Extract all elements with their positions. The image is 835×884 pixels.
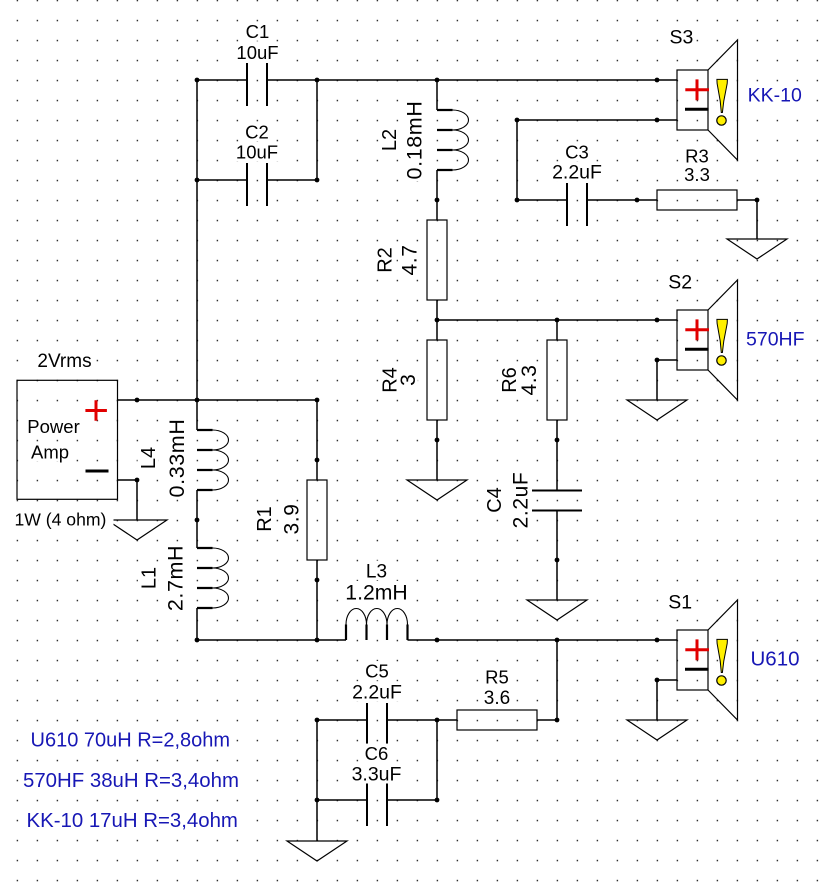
wire junction node (437,320) [435, 318, 440, 323]
svg-text:10uF: 10uF [236, 142, 278, 163]
wire junction node (657,640) [655, 638, 660, 643]
wire S3 minus horizontal [517, 119, 677, 121]
wire junction node (657,680) [655, 678, 660, 683]
ground (R4) [407, 480, 467, 500]
wire S1 minus to ground [656, 680, 658, 720]
wire bottom rail L3 to S1 [408, 639, 678, 641]
wire junction node (317,460) [315, 458, 320, 463]
svg-text:2.7mH: 2.7mH [164, 545, 188, 611]
label R3 value [681, 146, 713, 186]
label L3 value [344, 561, 410, 605]
svg-text:2.2uF: 2.2uF [509, 472, 532, 529]
wire junction node (657,360) [655, 358, 660, 363]
label R2 value [374, 243, 422, 278]
capacitor C1 [247, 63, 267, 106]
label L4 value [138, 417, 189, 499]
svg-text:S3: S3 [670, 27, 694, 49]
label S3 [668, 26, 696, 48]
label 570HF [744, 328, 806, 350]
svg-text:3.9: 3.9 [280, 504, 303, 535]
svg-text:C6: C6 [365, 743, 389, 764]
wire C5C6 block right vertical [436, 720, 438, 800]
ground (S1) [627, 720, 687, 740]
capacitor C2 [247, 163, 267, 206]
wire junction node (197,180) [195, 178, 200, 183]
svg-text:570HF: 570HF [746, 329, 805, 351]
svg-text:4.7: 4.7 [398, 245, 421, 276]
label R6 value [498, 363, 541, 398]
wire R4 to ground [436, 420, 438, 480]
annotation U610 70uH [29, 729, 233, 752]
wire junction node (557,440) [555, 438, 560, 443]
wire C2 row left [197, 179, 247, 181]
wire junction node (137,400) [135, 398, 140, 403]
speaker S1 [677, 600, 738, 720]
wire amp plus rail [117, 399, 317, 401]
wire junction node (437,80) [435, 78, 440, 83]
label C1 value [235, 21, 281, 63]
inductor L2 [437, 110, 469, 170]
svg-text:C2: C2 [245, 121, 269, 142]
wire C2 row right [267, 179, 317, 181]
resistor R5 [457, 710, 537, 730]
resistor R3 [657, 190, 737, 210]
inductor L4 [197, 430, 229, 490]
wire C3 to R3 [587, 199, 657, 201]
wire S2 minus stub [657, 359, 677, 361]
wire junction node (437,800) [435, 798, 440, 803]
power amp box U1 [17, 380, 118, 499]
label R5 value [481, 667, 513, 710]
wire junction node (757,200) [755, 198, 760, 203]
label KK-10 [746, 84, 804, 106]
wire L2 top stub [436, 80, 438, 110]
wire junction node (637,200) [635, 198, 640, 203]
svg-text:Amp: Amp [31, 442, 69, 463]
label C2 value [234, 121, 280, 162]
wire L1 to bottom rail [196, 608, 198, 640]
svg-text:0.18mH: 0.18mH [402, 101, 426, 180]
wire junction node (557,320) [555, 318, 560, 323]
wire junction node (437,200) [435, 198, 440, 203]
capacitor C3 [567, 183, 587, 226]
wire C5C6 block left vertical [316, 720, 318, 800]
wire S2 minus to ground [656, 360, 658, 400]
wire junction node (557,640) [555, 638, 560, 643]
svg-text:C1: C1 [246, 21, 270, 42]
wire junction node (517,120) [515, 118, 520, 123]
wire junction node (197,400) [195, 398, 200, 403]
svg-text:1W (4 ohm): 1W (4 ohm) [15, 510, 107, 530]
label Power Amp text [25, 416, 81, 437]
wire junction node (197,640) [195, 638, 200, 643]
wire junction node (657,120) [655, 118, 660, 123]
wire S1 minus stub [657, 679, 677, 681]
svg-text:10uF: 10uF [236, 42, 278, 63]
svg-text:L4: L4 [138, 447, 160, 469]
label U610 [749, 648, 801, 671]
svg-text:R2: R2 [374, 247, 396, 273]
wire C6 row left [317, 799, 367, 801]
wire amp minus to ground [136, 480, 138, 520]
wire junction node (317,800) [315, 798, 320, 803]
wire R3 corner to ground [756, 200, 758, 239]
wire R3 to corner [737, 199, 757, 201]
wire bottom rail left of L3 [197, 639, 346, 641]
svg-text:3: 3 [397, 374, 420, 386]
wire junction node (557,560) [555, 558, 560, 563]
label Amp text [29, 442, 71, 463]
wire junction node (197,80) [195, 78, 200, 83]
svg-text:3.6: 3.6 [484, 688, 510, 709]
svg-text:2Vrms: 2Vrms [37, 351, 91, 372]
wire cap-block right vertical [316, 80, 318, 180]
wire C4 to ground [556, 511, 558, 601]
wire C6 row right [387, 799, 437, 801]
wire junction node (317,180) [315, 178, 320, 183]
speaker S3 [677, 40, 738, 160]
svg-text:C5: C5 [365, 661, 389, 682]
wire junction node (657,320) [655, 318, 660, 323]
capacitor C6 [367, 783, 387, 826]
resistor R1 [307, 480, 327, 560]
wire L4 to L1 [196, 490, 198, 548]
svg-text:2.2uF: 2.2uF [552, 162, 602, 184]
ground (C6 block) [287, 841, 347, 861]
svg-text:U610: U610 [751, 648, 800, 671]
svg-text:R5: R5 [485, 667, 509, 688]
wire S3 minus vertical to C3 [516, 120, 518, 200]
wire R1 top [316, 400, 318, 480]
capacitor C4 [532, 491, 582, 511]
inductor L3 [346, 609, 408, 641]
label C3 value [550, 142, 604, 184]
label C5 value [350, 661, 404, 704]
speaker S2 [677, 280, 738, 400]
wire L2 to R2 [436, 170, 438, 220]
label 1W (4 ohm) [13, 510, 114, 530]
wire junction node (317,720) [315, 718, 320, 723]
wire top rail C1 to S3 [267, 79, 677, 81]
svg-text:S1: S1 [668, 592, 692, 614]
svg-text:2.2uF: 2.2uF [352, 682, 402, 704]
wire junction node (317,80) [315, 78, 320, 83]
wire R5 to corner [537, 719, 557, 721]
wire junction node (517,200) [515, 198, 520, 203]
label R4 value [379, 365, 420, 396]
ground (R3) [727, 239, 787, 259]
wire junction node (437,720) [435, 718, 440, 723]
resistor R2 [427, 220, 447, 300]
svg-text:570HF 38uH R=3,4ohm: 570HF 38uH R=3,4ohm [23, 770, 239, 792]
svg-text:KK-10: KK-10 [748, 85, 802, 107]
svg-text:KK-10 17uH R=3,4ohm: KK-10 17uH R=3,4ohm [27, 810, 238, 832]
label L1 value [138, 543, 188, 613]
svg-text:3.3: 3.3 [684, 164, 710, 185]
resistor R4 [427, 340, 447, 420]
wire junction node (197,520) [195, 518, 200, 523]
wire junction node (437,640) [435, 638, 440, 643]
wire block to ground [316, 800, 318, 841]
svg-text:L2: L2 [379, 129, 401, 151]
svg-text:4.3: 4.3 [518, 365, 541, 396]
wire junction node (557,720) [555, 718, 560, 723]
resistor R6 [547, 340, 567, 420]
wire junction node (317,580) [315, 578, 320, 583]
label S2 [666, 271, 694, 293]
svg-text:Power: Power [27, 416, 79, 437]
wire junction node (437,440) [435, 438, 440, 443]
svg-text:C4: C4 [484, 487, 506, 513]
label C6 value [350, 743, 404, 786]
wire top rail left of C1 [197, 79, 247, 81]
wire amp node to L4 [196, 400, 198, 430]
label S1 [666, 591, 694, 613]
svg-text:C3: C3 [565, 142, 589, 163]
wire C3 row left [517, 199, 567, 201]
annotation 570HF 38uH [21, 769, 241, 792]
wire C5 to R5 [387, 719, 457, 721]
wire C5 row left [317, 719, 367, 721]
svg-text:S2: S2 [668, 272, 692, 294]
annotation KK-10 17uH [25, 809, 242, 832]
svg-text:L3: L3 [366, 562, 387, 583]
wire junction node (317,400) [315, 398, 320, 403]
svg-text:U610 70uH R=2,8ohm: U610 70uH R=2,8ohm [31, 730, 231, 752]
ground (power amp) [107, 520, 167, 540]
label C4 value [484, 470, 533, 530]
wire R6 to C4 [556, 420, 558, 491]
svg-text:R1: R1 [254, 506, 276, 532]
svg-text:3.3uF: 3.3uF [352, 764, 402, 786]
wire junction node (317,640) [315, 638, 320, 643]
wire midrange rail y=320 [437, 319, 677, 321]
wire junction node (137,480) [135, 478, 140, 483]
capacitor C5 [367, 703, 387, 746]
label L2 value [379, 99, 427, 181]
wire R5 corner up to rail [556, 640, 558, 720]
svg-text:L1: L1 [139, 567, 161, 589]
label R1 value [253, 502, 303, 537]
wire R2 to R4 [436, 300, 438, 340]
svg-text:1.2mH: 1.2mH [345, 582, 407, 605]
wire R6 top stub [556, 320, 558, 340]
wire R1 bottom [316, 560, 318, 640]
wire junction node (657,80) [655, 78, 660, 83]
ground (S2) [627, 400, 687, 420]
svg-text:0.33mH: 0.33mH [165, 419, 189, 498]
wire amp minus stub [117, 479, 137, 481]
wire cap-block left vertical down to amp + node [196, 80, 198, 400]
label 2Vrms [35, 350, 96, 372]
inductor L1 [197, 548, 229, 608]
ground (C4) [527, 600, 587, 620]
